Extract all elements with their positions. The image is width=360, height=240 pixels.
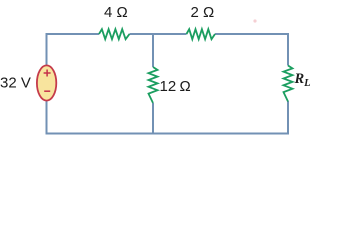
svg-text:RL: RL [294, 71, 311, 89]
wire middle branch top stub [152, 34, 154, 67]
resistor RL zigzag [284, 66, 293, 102]
wire top-middle segment [130, 33, 187, 35]
svg-text:Ω: Ω [180, 78, 191, 95]
artifact pink dot [253, 19, 256, 22]
svg-text:12: 12 [160, 78, 177, 95]
wire left-bottom segment [46, 99, 48, 135]
voltage source plus mark [44, 70, 51, 77]
wire middle branch bottom stub [152, 103, 154, 134]
resistor 4Ω zigzag [99, 29, 130, 39]
resistor 2Ω zigzag [187, 29, 216, 39]
voltage source minus mark [44, 90, 50, 92]
wire top-left segment [47, 34, 100, 66]
wire right branch bottom stub [287, 101, 289, 135]
wire bottom segment [46, 133, 290, 135]
resistor 12Ω zigzag [149, 67, 158, 103]
svg-text:4 Ω: 4 Ω [104, 4, 128, 21]
svg-text:2 Ω: 2 Ω [191, 4, 215, 21]
voltage source V1 ellipse [37, 65, 56, 100]
svg-text:32 V: 32 V [0, 75, 31, 92]
wire top-right segment [215, 34, 288, 66]
